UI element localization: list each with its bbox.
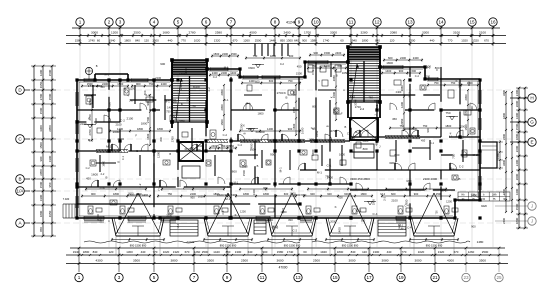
svg-text:770: 770: [181, 38, 186, 42]
svg-text:M-1: M-1: [234, 181, 239, 185]
svg-text:1300: 1300: [152, 38, 159, 42]
svg-text:950: 950: [48, 182, 52, 187]
svg-text:750: 750: [368, 96, 373, 100]
svg-text:750: 750: [191, 104, 196, 108]
svg-text:450: 450: [86, 176, 91, 180]
svg-text:1500: 1500: [39, 181, 43, 188]
svg-text:2100: 2100: [127, 117, 134, 121]
svg-text:C-1: C-1: [221, 210, 225, 215]
svg-text:C-1: C-1: [311, 127, 316, 130]
svg-text:1020: 1020: [163, 250, 170, 254]
svg-text:9420: 9420: [481, 204, 487, 208]
svg-text:2400: 2400: [212, 71, 218, 75]
svg-text:800: 800: [232, 170, 237, 174]
svg-text:770: 770: [153, 250, 158, 254]
svg-text:11: 11: [349, 20, 354, 25]
svg-text:450: 450: [297, 65, 302, 69]
svg-text:750: 750: [423, 124, 428, 128]
svg-text:1400: 1400: [385, 69, 391, 73]
svg-text:1500: 1500: [146, 133, 150, 139]
svg-text:1650: 1650: [342, 71, 349, 75]
svg-text:2400: 2400: [161, 82, 167, 86]
svg-text:1440: 1440: [269, 38, 276, 42]
svg-text:2580: 2580: [215, 30, 222, 34]
svg-text:1600 900 2400: 1600 900 2400: [217, 193, 237, 197]
svg-text:1400: 1400: [267, 127, 273, 131]
svg-text:7.020: 7.020: [63, 197, 70, 201]
svg-text:C-2: C-2: [223, 133, 228, 137]
svg-text:440: 440: [387, 250, 392, 254]
svg-text:120: 120: [390, 38, 395, 42]
svg-text:770: 770: [402, 250, 407, 254]
svg-text:2050: 2050: [464, 94, 468, 100]
svg-text:900: 900: [414, 192, 419, 196]
svg-text:1500 600: 1500 600: [294, 193, 307, 197]
svg-text:2-2: 2-2: [360, 107, 365, 111]
svg-text:C-2: C-2: [459, 165, 464, 169]
svg-text:750: 750: [166, 109, 171, 113]
svg-text:B: B: [286, 96, 288, 100]
svg-text:670: 670: [484, 38, 489, 42]
svg-text:B: B: [169, 152, 171, 156]
svg-text:1200: 1200: [446, 200, 452, 204]
svg-text:1480: 1480: [477, 240, 484, 244]
svg-text:B: B: [246, 217, 250, 219]
svg-text:60: 60: [340, 38, 344, 42]
svg-text:1940: 1940: [320, 250, 327, 254]
svg-text:1200: 1200: [424, 75, 430, 79]
svg-text:1650: 1650: [349, 136, 356, 140]
svg-text:1200: 1200: [194, 148, 201, 152]
svg-text:450: 450: [392, 117, 397, 121]
svg-text:M-1: M-1: [227, 185, 232, 189]
svg-text:600: 600: [338, 195, 343, 199]
svg-text:750: 750: [434, 81, 439, 85]
svg-text:2500: 2500: [313, 259, 320, 263]
svg-text:14: 14: [438, 20, 444, 25]
svg-text:800: 800: [312, 106, 317, 109]
svg-text:G: G: [530, 120, 534, 125]
svg-text:J: J: [531, 204, 533, 209]
svg-text:17: 17: [366, 275, 372, 280]
svg-text:2400: 2400: [515, 89, 519, 96]
svg-text:H: H: [530, 96, 533, 101]
svg-text:600: 600: [470, 106, 474, 111]
svg-text:1800: 1800: [257, 112, 264, 116]
svg-text:M-1: M-1: [317, 171, 322, 175]
svg-text:600: 600: [388, 56, 393, 60]
svg-text:440: 440: [168, 38, 173, 42]
svg-text:1500: 1500: [213, 52, 219, 56]
svg-text:750: 750: [288, 79, 293, 83]
svg-text:F: F: [247, 101, 249, 105]
svg-text:600: 600: [269, 79, 274, 83]
svg-text:F: F: [436, 68, 438, 72]
svg-text:2700: 2700: [100, 187, 106, 190]
svg-text:1800: 1800: [361, 192, 367, 196]
svg-text:750: 750: [167, 192, 172, 196]
svg-text:2050: 2050: [48, 125, 52, 132]
svg-text:60: 60: [303, 250, 307, 254]
svg-text:1800: 1800: [362, 38, 369, 42]
svg-text:2080: 2080: [390, 30, 397, 34]
svg-text:2000: 2000: [113, 130, 120, 134]
svg-text:900: 900: [302, 38, 307, 42]
svg-text:7100 4000: 7100 4000: [403, 127, 418, 131]
svg-text:3400: 3400: [502, 90, 506, 96]
svg-text:750: 750: [445, 111, 450, 115]
svg-text:1: 1: [79, 20, 82, 25]
svg-text:1500: 1500: [292, 107, 296, 113]
svg-text:3300: 3300: [457, 81, 461, 88]
svg-text:J: J: [531, 219, 533, 224]
svg-text:2000: 2000: [515, 173, 519, 180]
svg-text:7: 7: [193, 275, 196, 280]
svg-text:900: 900: [263, 250, 268, 254]
svg-text:1320: 1320: [438, 250, 445, 254]
svg-text:1580: 1580: [277, 250, 284, 254]
svg-text:1500: 1500: [515, 203, 519, 210]
svg-text:850: 850: [226, 250, 231, 254]
svg-text:M-2: M-2: [176, 223, 180, 228]
svg-text:1740: 1740: [323, 38, 330, 42]
svg-text:750: 750: [452, 153, 456, 158]
svg-text:2050: 2050: [400, 118, 404, 124]
svg-text:3300: 3300: [406, 179, 412, 183]
svg-text:3600: 3600: [277, 259, 284, 263]
svg-text:3400: 3400: [515, 188, 519, 195]
svg-text:2500: 2500: [202, 250, 209, 254]
svg-text:B: B: [106, 176, 108, 180]
svg-text:2700: 2700: [464, 109, 468, 115]
svg-text:C-4: C-4: [449, 132, 453, 137]
svg-text:B: B: [325, 125, 329, 127]
svg-text:C-2: C-2: [213, 75, 218, 79]
svg-text:2-2: 2-2: [207, 87, 211, 92]
svg-text:M-1: M-1: [398, 223, 403, 227]
svg-text:3300: 3300: [311, 149, 315, 156]
svg-text:C-2: C-2: [86, 167, 91, 170]
svg-text:800: 800: [159, 136, 163, 141]
svg-text:2050: 2050: [220, 104, 224, 110]
svg-text:2400: 2400: [396, 90, 402, 94]
svg-text:1300: 1300: [235, 250, 242, 254]
svg-text:800: 800: [363, 147, 368, 151]
svg-text:1800: 1800: [242, 164, 248, 168]
svg-text:M-1: M-1: [185, 147, 190, 151]
svg-text:C-4: C-4: [373, 212, 378, 216]
svg-text:1480: 1480: [496, 153, 500, 159]
svg-text:3300: 3300: [330, 30, 337, 34]
svg-text:1600: 1600: [339, 153, 345, 157]
svg-text:3300: 3300: [39, 125, 43, 132]
svg-text:1500: 1500: [48, 69, 52, 76]
svg-text:3300: 3300: [372, 138, 379, 142]
svg-text:C-2: C-2: [120, 119, 125, 123]
svg-text:600: 600: [394, 153, 399, 157]
svg-text:1800: 1800: [386, 61, 393, 65]
svg-text:1940: 1940: [73, 250, 80, 254]
svg-text:2400: 2400: [222, 52, 228, 56]
svg-text:1800: 1800: [157, 127, 163, 131]
svg-text:600: 600: [263, 186, 268, 190]
svg-text:1400: 1400: [324, 64, 330, 68]
svg-text:B: B: [257, 164, 259, 168]
svg-text:B: B: [116, 161, 120, 163]
svg-text:1400: 1400: [271, 224, 278, 228]
svg-text:B: B: [88, 138, 90, 142]
svg-text:2600: 2600: [515, 145, 519, 152]
svg-text:1200: 1200: [240, 209, 246, 213]
svg-text:1500: 1500: [515, 123, 519, 130]
svg-text:1940: 1940: [109, 38, 116, 42]
svg-text:B: B: [374, 99, 376, 103]
svg-text:13: 13: [407, 20, 413, 25]
svg-text:B: B: [124, 87, 126, 91]
svg-text:23: 23: [463, 275, 469, 280]
svg-text:1400: 1400: [167, 105, 173, 109]
svg-text:1650: 1650: [280, 210, 287, 214]
svg-text:C-1: C-1: [430, 142, 435, 145]
svg-text:1020: 1020: [418, 250, 425, 254]
svg-text:F: F: [193, 86, 195, 90]
svg-text:440: 440: [430, 38, 435, 42]
svg-text:1Wb: 1Wb: [492, 195, 497, 197]
svg-text:3500: 3500: [479, 259, 486, 263]
svg-text:120: 120: [362, 250, 367, 254]
svg-text:900: 900: [327, 192, 332, 196]
svg-text:21: 21: [432, 275, 438, 280]
svg-text:C-2: C-2: [280, 62, 285, 66]
svg-text:1650: 1650: [315, 130, 319, 137]
svg-text:2700: 2700: [375, 104, 379, 111]
svg-text:900: 900: [146, 101, 150, 106]
svg-text:3400: 3400: [502, 160, 506, 166]
svg-text:600: 600: [255, 79, 260, 83]
svg-text:2700: 2700: [171, 136, 175, 142]
svg-text:12: 12: [374, 20, 380, 25]
svg-text:3300: 3300: [422, 30, 429, 34]
svg-text:1300: 1300: [126, 250, 133, 254]
svg-text:120: 120: [144, 38, 149, 42]
svg-text:16: 16: [490, 20, 496, 25]
svg-text:M-1: M-1: [185, 97, 189, 102]
svg-text:750: 750: [253, 54, 258, 58]
svg-text:1600: 1600: [179, 72, 186, 76]
svg-text:2000: 2000: [117, 137, 124, 141]
svg-text:890 1500 890: 890 1500 890: [130, 244, 147, 248]
svg-text:C-2: C-2: [299, 218, 304, 221]
svg-text:1500: 1500: [292, 123, 296, 129]
svg-text:5: 5: [153, 275, 156, 280]
svg-text:2500: 2500: [482, 250, 489, 254]
svg-text:1200: 1200: [88, 99, 92, 105]
svg-text:1320: 1320: [173, 250, 180, 254]
svg-text:3100: 3100: [453, 30, 460, 34]
svg-text:1600: 1600: [91, 173, 98, 177]
svg-text:4500: 4500: [250, 30, 257, 34]
svg-text:-0.020: -0.020: [186, 240, 195, 244]
svg-text:2400: 2400: [502, 218, 506, 224]
svg-text:1200: 1200: [129, 86, 135, 90]
svg-text:C-1: C-1: [122, 155, 125, 160]
svg-text:C-1: C-1: [326, 164, 331, 168]
svg-text:890 1500 890: 890 1500 890: [342, 244, 359, 248]
svg-text:K: K: [243, 124, 245, 128]
svg-text:M-2: M-2: [473, 153, 479, 157]
svg-text:K: K: [330, 96, 334, 98]
svg-text:1500: 1500: [436, 192, 442, 196]
svg-text:600: 600: [284, 192, 289, 196]
svg-text:3: 3: [118, 275, 121, 280]
svg-text:1500: 1500: [39, 107, 43, 114]
svg-text:1200: 1200: [459, 124, 466, 128]
svg-text:±0.000: ±0.000: [255, 130, 264, 134]
svg-text:C-1: C-1: [311, 70, 315, 75]
svg-text:B: B: [450, 167, 452, 171]
svg-text:2400: 2400: [400, 56, 406, 60]
svg-text:M-2: M-2: [355, 130, 360, 134]
svg-text:1800: 1800: [337, 250, 344, 254]
svg-text:1500: 1500: [48, 93, 52, 100]
svg-text:2700: 2700: [277, 91, 284, 95]
svg-text:900: 900: [39, 156, 43, 161]
svg-text:1500: 1500: [220, 119, 224, 125]
svg-text:2050: 2050: [220, 89, 224, 95]
svg-text:1580: 1580: [310, 38, 317, 42]
svg-text:450: 450: [350, 94, 355, 98]
svg-text:1650: 1650: [127, 216, 131, 223]
svg-text:15: 15: [469, 20, 475, 25]
svg-text:2100: 2100: [391, 199, 398, 203]
svg-text:840: 840: [135, 38, 140, 42]
svg-text:670: 670: [454, 250, 459, 254]
svg-text:3280: 3280: [361, 30, 368, 34]
svg-text:750: 750: [325, 174, 330, 178]
svg-text:2400: 2400: [284, 30, 291, 34]
svg-text:800: 800: [288, 218, 293, 222]
svg-text:1700: 1700: [304, 30, 311, 34]
svg-text:900: 900: [91, 192, 96, 196]
svg-text:800: 800: [404, 199, 408, 204]
svg-text:3300 450 2800: 3300 450 2800: [350, 177, 370, 181]
svg-text:2780: 2780: [189, 30, 196, 34]
svg-text:1200: 1200: [400, 102, 404, 108]
svg-text:3: 3: [119, 20, 122, 25]
svg-text:41240: 41240: [286, 21, 296, 25]
svg-text:M-1: M-1: [105, 72, 110, 76]
svg-text:3000: 3000: [91, 30, 98, 34]
svg-text:C-1: C-1: [224, 98, 229, 102]
svg-text:2400: 2400: [515, 159, 519, 166]
svg-text:1800: 1800: [243, 192, 249, 196]
svg-text:1800: 1800: [263, 192, 269, 196]
svg-text:3500: 3500: [133, 259, 140, 263]
svg-text:1800: 1800: [502, 113, 506, 119]
svg-text:1400: 1400: [252, 189, 256, 196]
svg-text:1500: 1500: [39, 142, 43, 149]
svg-text:1500: 1500: [231, 52, 237, 56]
svg-text:2400: 2400: [221, 71, 227, 75]
svg-text:900: 900: [399, 69, 404, 73]
svg-text:3300: 3300: [166, 213, 172, 217]
svg-text:2700: 2700: [39, 93, 43, 100]
svg-text:2-2: 2-2: [101, 172, 105, 176]
svg-text:1500: 1500: [296, 72, 303, 76]
svg-text:5: 5: [177, 20, 180, 25]
svg-text:1800: 1800: [334, 112, 341, 116]
svg-text:890 1500 890: 890 1500 890: [220, 244, 237, 248]
svg-text:900: 900: [270, 153, 275, 157]
svg-text:900: 900: [471, 224, 476, 228]
svg-text:K: K: [284, 91, 286, 95]
svg-text:1400: 1400: [194, 85, 201, 89]
svg-text:600: 600: [108, 102, 112, 107]
svg-text:13: 13: [295, 275, 301, 280]
svg-text:1940: 1940: [350, 38, 357, 42]
svg-text:2000: 2000: [515, 100, 519, 107]
svg-text:840: 840: [93, 250, 98, 254]
svg-text:1800: 1800: [124, 38, 131, 42]
svg-text:1500: 1500: [424, 65, 431, 69]
svg-text:B: B: [18, 177, 21, 182]
svg-text:2-2: 2-2: [129, 100, 133, 103]
svg-text:1320: 1320: [214, 38, 221, 42]
svg-text:2400: 2400: [211, 144, 217, 148]
svg-text:1260: 1260: [243, 38, 250, 42]
svg-text:1800: 1800: [137, 127, 143, 131]
svg-text:2500: 2500: [255, 38, 262, 42]
svg-text:2000: 2000: [330, 220, 336, 224]
svg-text:750: 750: [149, 82, 154, 86]
svg-text:3300: 3300: [362, 139, 368, 143]
svg-text:C-2: C-2: [356, 208, 361, 212]
svg-text:C-2: C-2: [347, 132, 352, 136]
svg-text:F: F: [107, 220, 111, 222]
svg-text:3500: 3500: [207, 259, 214, 263]
svg-text:770: 770: [448, 38, 453, 42]
svg-text:2-2: 2-2: [138, 183, 142, 188]
svg-text:1200: 1200: [39, 69, 43, 76]
svg-text:900: 900: [310, 192, 315, 196]
svg-text:2050: 2050: [39, 169, 43, 176]
svg-text:3300: 3300: [171, 98, 177, 102]
svg-text:1500: 1500: [117, 82, 123, 86]
svg-text:2: 2: [108, 20, 111, 25]
svg-text:1300: 1300: [286, 38, 293, 42]
svg-text:9: 9: [226, 275, 229, 280]
svg-text:1500: 1500: [242, 170, 246, 177]
svg-text:B: B: [345, 125, 347, 129]
svg-text:1300: 1300: [373, 250, 380, 254]
svg-text:11: 11: [260, 275, 265, 280]
svg-text:1500 600 1400: 1500 600 1400: [128, 193, 148, 197]
svg-text:120: 120: [109, 250, 114, 254]
svg-text:1800: 1800: [515, 133, 519, 140]
svg-text:670: 670: [185, 250, 190, 254]
svg-text:2700: 2700: [88, 129, 92, 135]
svg-text:3000: 3000: [415, 259, 422, 263]
svg-text:1260: 1260: [194, 250, 201, 254]
svg-text:1650: 1650: [226, 144, 233, 148]
svg-text:3000: 3000: [349, 259, 356, 263]
svg-text:M-1: M-1: [225, 197, 230, 201]
svg-text:1440: 1440: [213, 250, 220, 254]
svg-text:900: 900: [313, 51, 318, 55]
svg-text:1800: 1800: [141, 121, 148, 125]
svg-text:800: 800: [467, 81, 471, 86]
svg-text:450: 450: [374, 141, 378, 146]
